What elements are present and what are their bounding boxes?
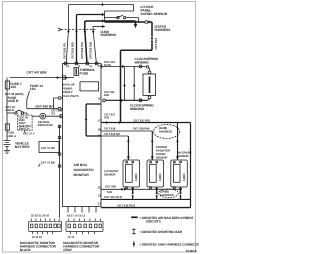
svg-text:13: 13 xyxy=(98,64,102,68)
svg-text:CIRCUITS: CIRCUITS xyxy=(146,220,161,224)
svg-text:CKT 947 B/W: CKT 947 B/W xyxy=(27,70,48,74)
svg-text:SAFING SENSOR: SAFING SENSOR xyxy=(141,12,168,16)
svg-text:17: 17 xyxy=(98,119,102,123)
svg-text:CKT 615 P/LG: CKT 615 P/LG xyxy=(104,195,122,199)
svg-text:CKT 57 BK: CKT 57 BK xyxy=(41,146,55,150)
svg-text:SENSOR: SENSOR xyxy=(104,173,116,177)
svg-text:21: 21 xyxy=(98,194,102,198)
svg-text:16: 16 xyxy=(64,76,68,80)
svg-text:14: 14 xyxy=(66,64,70,68)
svg-text:= DENOTES SHORTING BAR: = DENOTES SHORTING BAR xyxy=(140,230,183,234)
svg-text:CKT 640: CKT 640 xyxy=(105,184,116,188)
svg-text:18: 18 xyxy=(98,128,102,132)
svg-text:FUSE: FUSE xyxy=(80,71,89,75)
svg-text:15A: 15A xyxy=(30,87,37,91)
svg-text:19: 19 xyxy=(98,134,102,138)
svg-text:INDICATOR: INDICATOR xyxy=(38,123,53,127)
svg-text:GY/O: GY/O xyxy=(104,63,112,67)
svg-text:CKT 27 Y: CKT 27 Y xyxy=(23,131,35,135)
svg-text:11803: 11803 xyxy=(158,173,162,181)
svg-text:LINK B: LINK B xyxy=(8,99,19,103)
svg-text:RA/LG: RA/LG xyxy=(6,108,14,112)
svg-text:CKT 618 P/W: CKT 618 P/W xyxy=(133,127,150,131)
svg-text:CKT 611 R/O: CKT 611 R/O xyxy=(70,41,74,59)
svg-text:CKT 614 P/O: CKT 614 P/O xyxy=(80,41,84,59)
svg-text:15A: 15A xyxy=(10,85,17,89)
svg-text:HARNESS: HARNESS xyxy=(159,130,173,134)
svg-text:CKT 57 BK: CKT 57 BK xyxy=(41,160,55,164)
svg-text:SENSOR: SENSOR xyxy=(177,154,189,158)
svg-text:11803: 11803 xyxy=(182,173,186,181)
svg-text:MONITOR: MONITOR xyxy=(74,173,90,177)
svg-text:22 20 21 20 16: 22 20 21 20 16 xyxy=(31,214,49,218)
svg-text:TAN: TAN xyxy=(107,190,112,194)
svg-text:CKT 615 P/L: CKT 615 P/L xyxy=(62,42,66,59)
svg-text:SWITCH: SWITCH xyxy=(19,127,30,131)
svg-text:DIAGNOSTIC: DIAGNOSTIC xyxy=(74,168,95,172)
svg-text:18 17 14 15 13: 18 17 14 15 13 xyxy=(67,214,85,218)
svg-text:CKT 618: CKT 618 xyxy=(104,126,115,130)
svg-text:13: 13 xyxy=(98,201,102,205)
svg-text:CKT 612 B/Y: CKT 612 B/Y xyxy=(104,132,120,136)
svg-text:LINK A: LINK A xyxy=(7,134,16,138)
svg-text:WINDING: WINDING xyxy=(130,107,145,111)
svg-text:R7580-B: R7580-B xyxy=(186,249,197,253)
svg-text:11: 11 xyxy=(89,64,92,68)
svg-text:AIR BAG: AIR BAG xyxy=(74,163,88,167)
svg-text:20: 20 xyxy=(98,185,102,189)
svg-text:BLACK: BLACK xyxy=(20,248,32,252)
svg-text:12 11 10: 12 11 10 xyxy=(32,235,43,239)
svg-text:11803: 11803 xyxy=(134,173,138,181)
svg-text:10: 10 xyxy=(98,97,102,101)
svg-text:GRAY: GRAY xyxy=(63,248,73,252)
svg-text:CKT 613 O/B: CKT 613 O/B xyxy=(88,42,92,59)
svg-text:= DENOTES 14401 HARNESS CONNEC: = DENOTES 14401 HARNESS CONNECTOR xyxy=(140,242,200,246)
svg-text:HARNESS: HARNESS xyxy=(160,193,174,197)
svg-text:10-16 VOLTS: 10-16 VOLTS xyxy=(62,94,79,98)
svg-text:GY: GY xyxy=(51,112,55,116)
svg-text:SENSOR: SENSOR xyxy=(156,156,168,160)
svg-text:CKT 617 P/O: CKT 617 P/O xyxy=(134,118,151,122)
svg-text:BATTERY: BATTERY xyxy=(15,145,31,149)
svg-text:12 11: 12 11 xyxy=(68,235,75,239)
svg-text:HARNESS: HARNESS xyxy=(155,28,172,32)
svg-text:CKT 616 P/LG: CKT 616 P/LG xyxy=(117,203,135,207)
svg-text:WINDING: WINDING xyxy=(135,60,150,64)
svg-text:HARNESS: HARNESS xyxy=(101,33,118,37)
svg-text:CKT 614: CKT 614 xyxy=(154,38,158,50)
